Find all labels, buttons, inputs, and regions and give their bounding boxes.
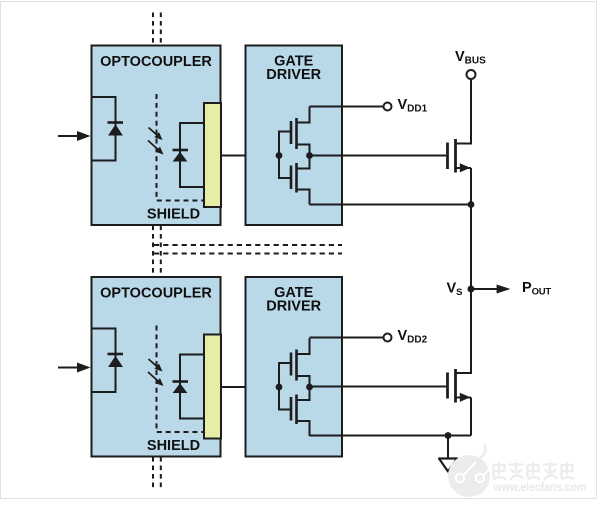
gate driver U1 body (246, 46, 343, 226)
ground symbol (439, 459, 457, 472)
wire driver2 output to Q2 gate (310, 386, 447, 388)
wire photodiode loop of U2 (180, 355, 204, 419)
wire gate link in U1 (279, 132, 291, 179)
photodiode D1b (detector) (173, 149, 189, 152)
wire driver1 top rail to VDD1 (310, 106, 384, 108)
optocoupler U1 body (92, 46, 221, 226)
wire photodiode loop of U1 (180, 123, 204, 187)
LED D2a (emitter diode) (108, 353, 124, 356)
wire VS node to Q2 drain (456, 289, 472, 373)
svg-text:DRIVER: DRIVER (266, 299, 321, 315)
isolation barrier dashed line (vertical pair, middle) (153, 226, 161, 278)
lower MOSFET Q1n in U1 (291, 156, 310, 205)
output node dot of U2 (306, 384, 313, 391)
input arrow into U1 (58, 135, 78, 137)
Q1 source arrow (460, 163, 471, 172)
wire driver2 bottom rail to ground node (310, 435, 472, 437)
shield electrode bar of U1 (204, 103, 221, 207)
svg-text:SHIELD: SHIELD (147, 207, 200, 223)
svg-text:DRIVER: DRIVER (266, 67, 321, 83)
terminal VBUS (467, 70, 476, 79)
svg-text:www.elecfans.com: www.elecfans.com (493, 480, 587, 494)
svg-text:SHIELD: SHIELD (147, 438, 200, 454)
wire down to ground (447, 436, 449, 459)
optocoupler U2 body (92, 277, 221, 457)
shield electrode bar of U2 (204, 335, 221, 439)
node VS dot (468, 286, 475, 293)
terminal VDD2 (384, 334, 392, 342)
wire Q2 source to ground rail (470, 398, 472, 436)
dashed shield boundary inside U2 (157, 326, 205, 433)
power MOSFET Q1 (high side) (448, 139, 472, 173)
watermark chinese text (494, 463, 574, 480)
wire VBUS to Q1 drain (456, 79, 472, 144)
wire Q1 source down to VS node (470, 168, 472, 289)
upper MOSFET Q2p in U2 (291, 338, 310, 387)
input arrow into U2 (58, 367, 78, 369)
wire driver1 output to Q1 gate (310, 155, 447, 157)
upper MOSFET Q1p in U1 (291, 107, 310, 156)
gate driver U2 body (246, 277, 343, 457)
Q2 source arrow (460, 393, 471, 402)
isolation barrier dashed line (vertical pair, above) (153, 13, 161, 46)
svg-text:OPTOCOUPLER: OPTOCOUPLER (100, 54, 212, 70)
photodiode D2b (detector) (173, 380, 189, 383)
input node dot of U1 (276, 152, 283, 159)
wire U1 output to gate driver input (221, 155, 280, 157)
svg-text:OPTOCOUPLER: OPTOCOUPLER (100, 286, 212, 302)
wire driver1 bottom rail to Q1 source node (310, 204, 472, 206)
POUT arrow (474, 288, 498, 290)
watermark logo (448, 444, 490, 497)
output node dot of U1 (306, 152, 313, 159)
wire LED loop of U1 (92, 97, 116, 161)
terminal VDD1 (384, 103, 392, 111)
wire gate link in U2 (279, 363, 291, 410)
wire driver2 top rail to VDD2 (310, 337, 384, 339)
light emission arrows in U2 (148, 359, 164, 386)
LED D1a (emitter diode) (108, 121, 124, 124)
isolation barrier dashed line (vertical pair, below) (153, 457, 161, 489)
dashed shield boundary inside U1 (157, 94, 205, 201)
isolation barrier dashed line (horizontal pair) (154, 245, 342, 254)
junction dot ground rail (445, 432, 452, 439)
input node dot of U2 (276, 384, 283, 391)
junction dot Q1 source / driver1 return (468, 201, 475, 208)
light emission arrows in U1 (148, 128, 164, 155)
wire U2 output to gate driver 2 input (221, 386, 280, 388)
power MOSFET Q2 (low side) (448, 369, 472, 403)
wire LED loop of U2 (92, 329, 116, 393)
lower MOSFET Q2n in U2 (291, 387, 310, 436)
